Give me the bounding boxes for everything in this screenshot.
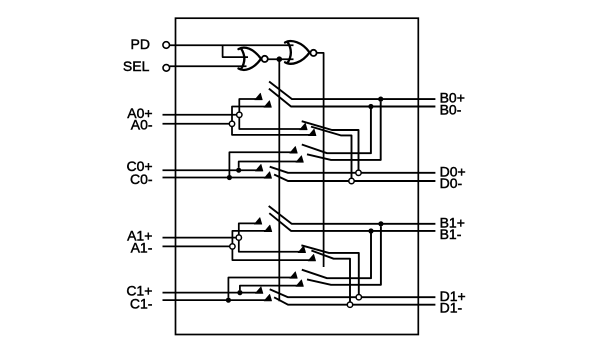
contact arrow C0+/B0+ xyxy=(296,156,304,163)
switch S12 blade A1- to D1- xyxy=(311,251,350,302)
svg-text:A1-: A1- xyxy=(131,240,153,256)
wire PD to NOR gates xyxy=(170,44,294,46)
wire PD branch down to U1 input xyxy=(223,45,248,57)
NOR gate U2 xyxy=(287,42,290,63)
contact arrow A1-/D1- xyxy=(308,254,316,261)
switch S16 blade C1- to D1- xyxy=(274,297,435,304)
svg-text:B0-: B0- xyxy=(440,101,462,117)
node C0+ junction dot xyxy=(236,168,241,173)
contact arrow C1-/D1- xyxy=(264,294,272,301)
contact arrow C1-/B1- xyxy=(290,272,298,279)
switch S8 blade C0- to D0- xyxy=(274,175,435,182)
node A0+ circle xyxy=(237,112,242,117)
svg-text:B1-: B1- xyxy=(440,226,462,242)
node C1- junction dot xyxy=(226,298,231,303)
node B1- junction dot xyxy=(368,228,373,233)
IC boundary box xyxy=(176,18,419,334)
node C0- junction dot xyxy=(227,175,232,180)
switch S15 blade C1+ to D1+ xyxy=(270,289,436,297)
wire A0- pin xyxy=(163,123,230,125)
svg-text:A0-: A0- xyxy=(131,116,153,132)
contact arrow A0-/B0- xyxy=(264,101,272,108)
contact arrow C0+/D0+ xyxy=(255,164,263,171)
wire A0+ down-branch to switch S3 xyxy=(239,117,307,129)
switch S6 blade C0+ to B0+ xyxy=(307,102,381,160)
switch S5 blade C0- to B0- xyxy=(302,109,371,153)
pin SEL terminal circle xyxy=(163,65,170,72)
switch S11 blade A1+ to D1+ xyxy=(301,245,358,294)
wire A0- down-branch to switch S4 xyxy=(232,126,316,135)
svg-text:C0-: C0- xyxy=(130,171,153,187)
wire C1+ up-branch to switch S14 xyxy=(240,286,303,291)
wire A1+ up-branch to switch S9 xyxy=(239,223,262,235)
node A0- circle xyxy=(229,121,234,126)
switch S4 blade A0- to D0- xyxy=(311,127,352,179)
wire A0+ up-branch to switch S1 xyxy=(239,99,262,112)
switch S7 blade C0+ to D0+ xyxy=(270,167,436,173)
node D0- circle xyxy=(349,178,354,183)
contact arrow A1-/B1- xyxy=(264,225,272,232)
switch S3 blade A0+ to D0+ xyxy=(302,121,359,170)
wire C0+ pin xyxy=(163,169,263,171)
pin PD terminal circle xyxy=(163,42,170,49)
contact arrow A1+/B1+ xyxy=(254,218,261,225)
node D0+ circle xyxy=(356,170,361,175)
svg-text:D1-: D1- xyxy=(440,300,463,316)
contact arrow A1+/D1+ xyxy=(298,246,306,253)
node B0+ junction dot xyxy=(378,97,383,102)
switch S1 blade A0+ to B0+ xyxy=(269,82,435,100)
switch S13 blade C1- to B1- xyxy=(302,234,371,279)
wire C1- up-branch to switch S13 xyxy=(228,278,297,298)
contact arrow C1+/B1+ xyxy=(296,280,304,287)
node B0- junction dot xyxy=(368,104,373,109)
node SELB junction dot xyxy=(277,56,283,62)
wire C0- pin xyxy=(163,177,272,179)
wire A0- up-branch to switch S2 xyxy=(232,107,271,122)
NOR gate U1 output bubble xyxy=(262,56,268,62)
wire C0- up-branch to switch S5 xyxy=(229,152,297,175)
wire A1- up-branch to switch S10 xyxy=(232,231,271,244)
node D1- circle xyxy=(347,302,352,307)
wire U1 output xyxy=(268,58,294,60)
contact arrow A0-/D0- xyxy=(309,129,317,136)
svg-text:SEL: SEL xyxy=(123,58,150,74)
wire U2 output to control rail xyxy=(317,53,324,267)
switch S9 blade A1+ to B1+ xyxy=(269,206,436,224)
node C1+ junction dot xyxy=(237,290,242,295)
wire A1+ down-branch to switch S11 xyxy=(239,240,306,252)
contact arrow A0+/D0+ xyxy=(300,123,308,130)
switch S2 blade A0- to B0- xyxy=(269,89,436,107)
wire control SELB vertical xyxy=(278,62,280,302)
wire A0+ pin xyxy=(163,114,237,116)
node B1+ junction dot xyxy=(378,221,383,226)
wire C0+ up-branch to switch S6 xyxy=(239,162,304,168)
wire C1+ pin xyxy=(163,292,263,294)
wire A1+ pin xyxy=(163,237,237,239)
svg-text:PD: PD xyxy=(131,36,150,52)
svg-text:D0-: D0- xyxy=(440,175,463,191)
node D1+ circle xyxy=(356,295,361,300)
node A1- circle xyxy=(230,244,235,249)
contact arrow C0-/D0- xyxy=(264,172,272,179)
NOR gate U2 output bubble xyxy=(310,50,316,56)
switch S10 blade A1- to B1- xyxy=(269,213,435,231)
wire SEL to U1 input xyxy=(170,65,247,67)
switch S14 blade C1+ to B1+ xyxy=(307,226,381,284)
wire A1- down-branch to switch S12 xyxy=(232,249,315,260)
contact arrow C0-/B0- xyxy=(290,147,298,154)
wire A1- pin xyxy=(163,245,230,247)
svg-text:C1-: C1- xyxy=(130,295,153,311)
contact arrow C1+/D1+ xyxy=(255,287,263,294)
NOR gate U1 xyxy=(241,48,244,69)
wire C1- pin xyxy=(163,299,272,301)
contact arrow A0+/B0+ xyxy=(255,93,262,100)
node A1+ circle xyxy=(236,235,241,240)
